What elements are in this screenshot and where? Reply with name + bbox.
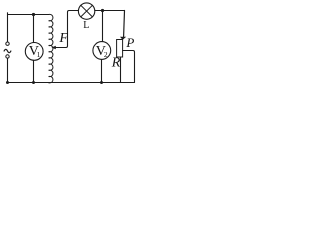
wire V2 bottom lead xyxy=(101,59,103,82)
wire bottom horizontal xyxy=(8,82,135,84)
terminal upper of AC source xyxy=(6,42,9,45)
voltmeter V2 circle xyxy=(93,42,111,60)
junction dot bottom of V1 xyxy=(32,81,35,84)
svg-text:1: 1 xyxy=(37,50,41,59)
slider P vertical wire xyxy=(123,11,126,37)
junction dot top of V1 xyxy=(32,13,35,16)
junction dot bottom of V2 xyxy=(100,81,103,84)
terminal lower of AC source xyxy=(6,55,9,58)
wire R right side to right rail xyxy=(123,51,135,83)
lamp X diagonal 2 xyxy=(81,5,93,17)
resistor R body xyxy=(117,40,123,58)
AC source ~ symbol xyxy=(4,49,11,52)
wire R bottom lead xyxy=(120,57,122,83)
svg-text:P: P xyxy=(125,35,134,50)
svg-text:F: F xyxy=(58,31,68,46)
slider arrow on resistor R xyxy=(120,37,126,40)
wire left vertical upper xyxy=(7,13,9,42)
svg-text:2: 2 xyxy=(104,50,108,59)
svg-text:R: R xyxy=(111,55,121,70)
voltmeter V1 circle xyxy=(25,43,43,61)
slider tap wire to lamp branch xyxy=(55,11,78,48)
wire lamp right to top-right corner xyxy=(95,10,125,12)
slider arrow on coil xyxy=(51,46,55,49)
inductor coil (autotransformer winding) xyxy=(49,14,53,82)
wire V2 top lead xyxy=(102,11,104,42)
lamp L circle xyxy=(78,3,94,19)
lamp X diagonal 1 xyxy=(81,5,93,17)
junction dot top of V2 xyxy=(101,9,104,12)
wire V1 top lead xyxy=(33,15,35,43)
wire left vertical lower xyxy=(7,58,9,82)
wire top-left horizontal xyxy=(8,14,49,16)
junction dot bottom-left corner xyxy=(6,81,9,84)
svg-text:L: L xyxy=(83,20,89,31)
wire V1 bottom lead xyxy=(33,60,35,82)
